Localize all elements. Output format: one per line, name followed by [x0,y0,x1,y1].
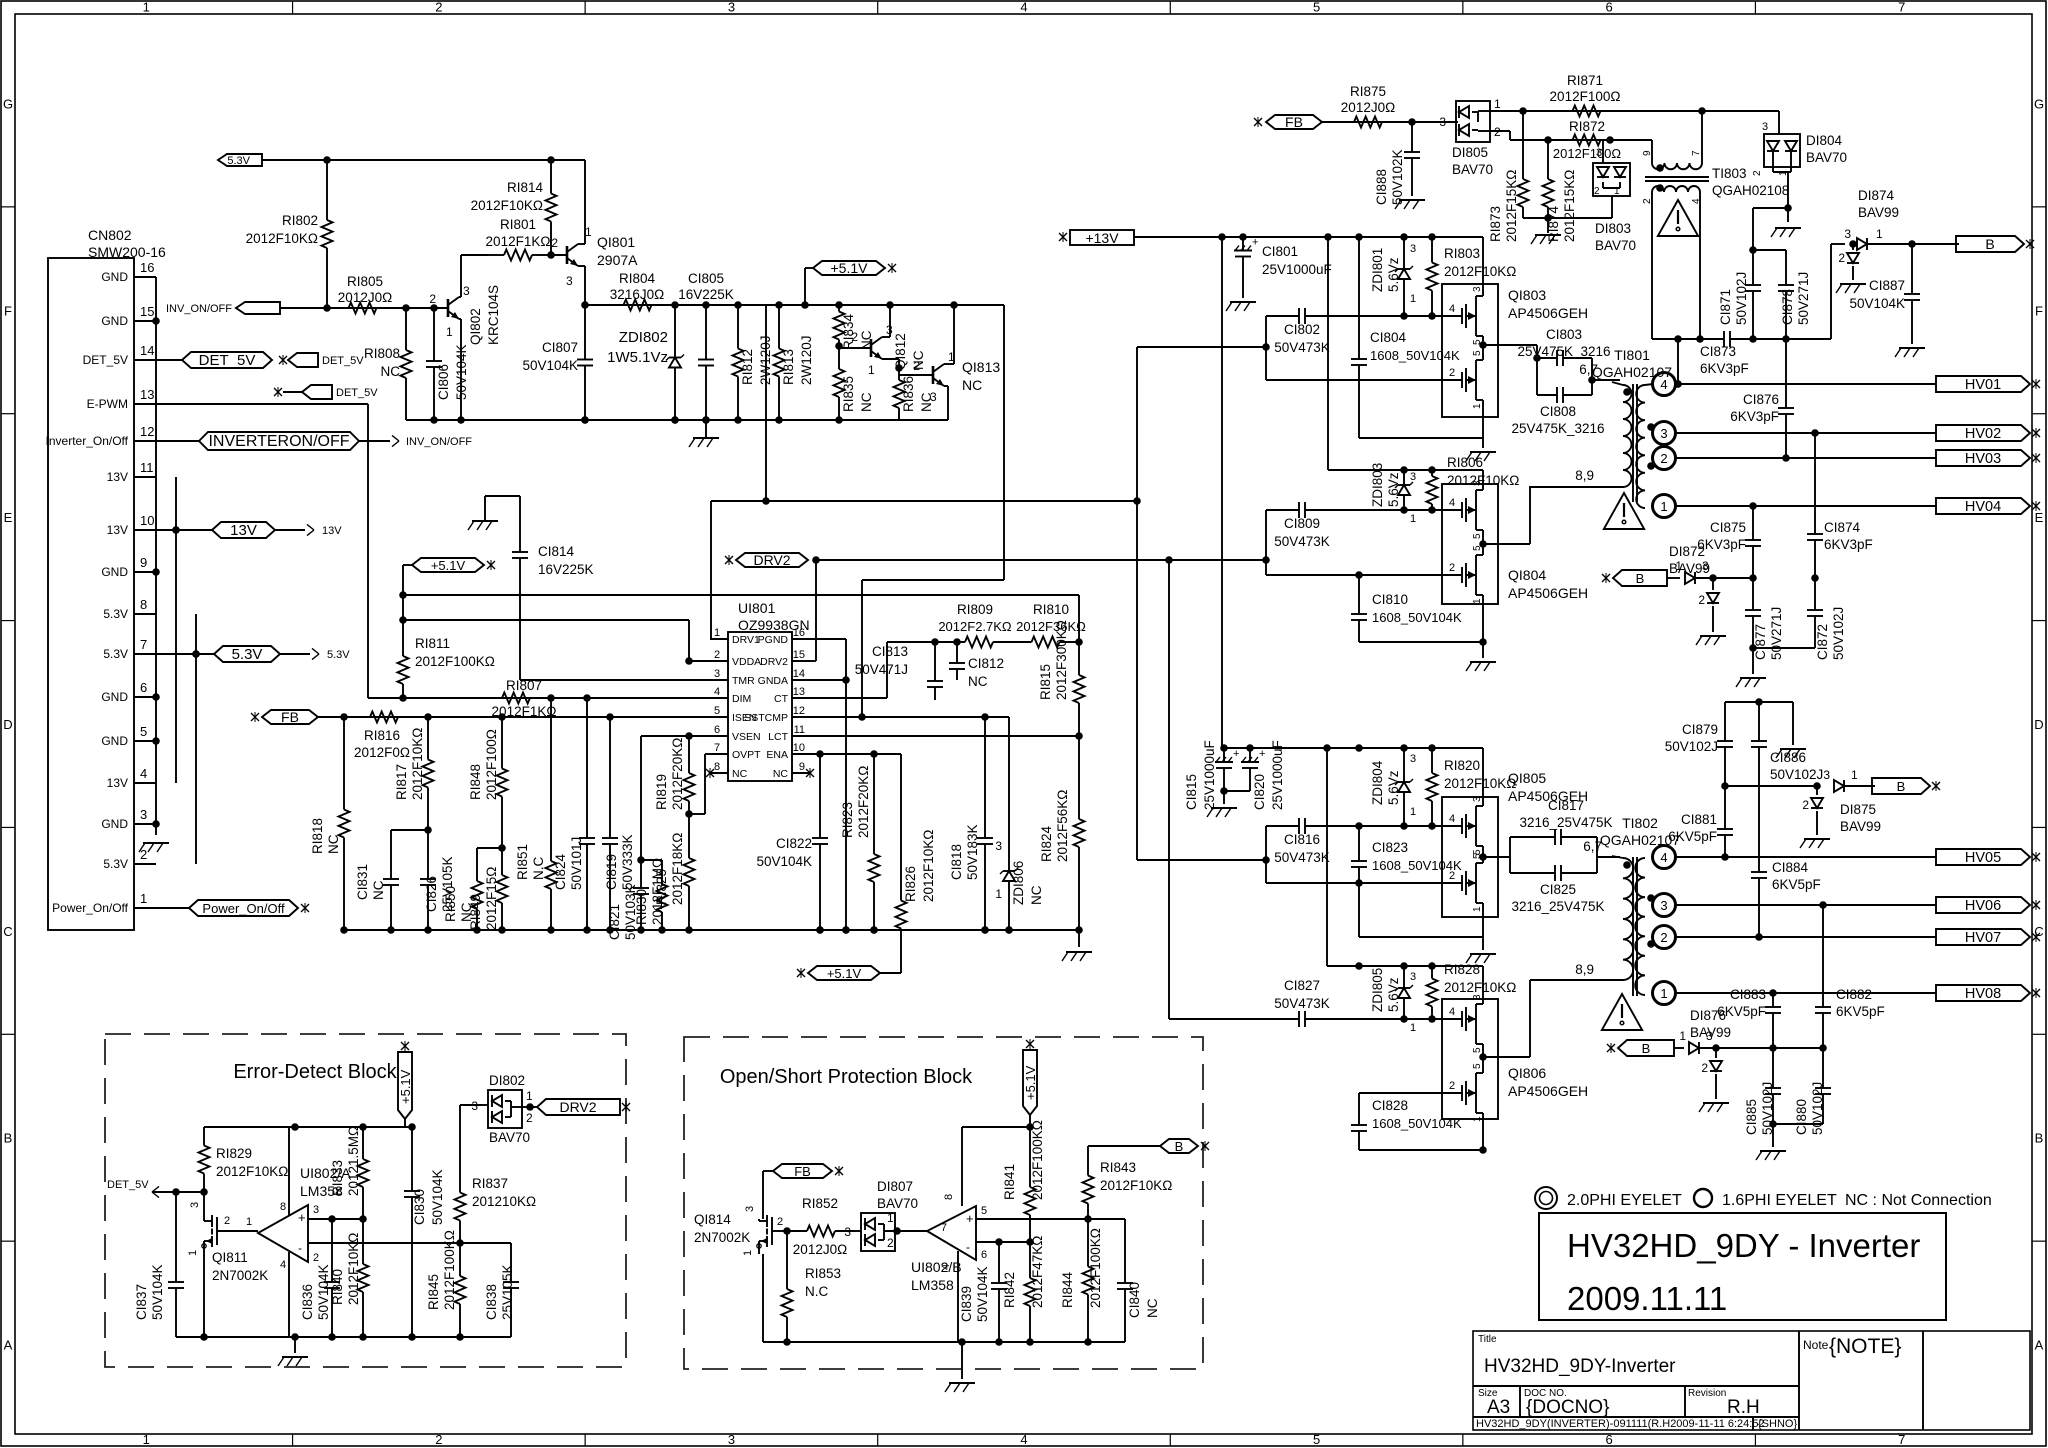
svg-text:E: E [4,510,13,525]
ground symbol below CI877 [1736,648,1766,687]
resistor RI802 [246,160,333,308]
wire +5.1V to RI809 node [399,591,1079,642]
zener diode ZDI806 (NC) [995,717,1044,934]
net flag HV07 [1936,929,2040,946]
svg-text:4: 4 [714,686,720,698]
svg-text:2012J0Ω: 2012J0Ω [1341,100,1395,115]
wire DI804 pins join [1773,160,1792,222]
net flag FB [251,709,318,725]
svg-text:RI811: RI811 [415,636,450,651]
svg-text:DRV2: DRV2 [760,656,788,668]
diode DI875 second half [1802,782,1823,835]
ground symbol error block [278,1337,308,1366]
svg-text:Error-Detect Block: Error-Detect Block [233,1061,397,1083]
wire RI817-CI826-CI831 node [391,826,432,834]
svg-text:RI871: RI871 [1567,73,1603,88]
svg-text:QI801: QI801 [597,234,635,250]
net flag DET_5V [156,352,272,369]
wire QI804 pin5 to TI801 8-9 [1483,468,1594,544]
svg-text:2012F2.7KΩ: 2012F2.7KΩ [938,619,1012,634]
svg-text:2012F10KΩ: 2012F10KΩ [1444,264,1516,279]
svg-text:6KV3pF: 6KV3pF [1824,537,1873,552]
resistor RI836 (NC) [894,368,935,420]
svg-text:3: 3 [1410,753,1416,765]
svg-text:25V1000uF: 25V1000uF [1270,740,1285,810]
svg-text:CI807: CI807 [542,340,578,355]
ground symbol below CI815 [1207,791,1237,817]
svg-text:2: 2 [551,236,558,250]
svg-text:RI805: RI805 [347,274,383,289]
svg-text:6: 6 [1606,0,1613,15]
resistor RI834 (NC) [834,305,875,350]
capacitor CI836 [300,1219,340,1341]
svg-text:2: 2 [714,649,720,661]
svg-text:CI885: CI885 [1744,1099,1759,1135]
svg-text:2: 2 [1642,198,1653,204]
svg-text:HV08: HV08 [1965,986,2001,1002]
svg-text:4: 4 [280,1259,286,1271]
svg-text:{DOCNO}: {DOCNO} [1526,1397,1609,1418]
svg-text:F: F [4,303,12,318]
svg-text:7: 7 [1898,0,1905,15]
ground symbol below DI872 [1696,636,1726,645]
eyelet pin 4 TI802 [1653,846,1676,869]
svg-text:CI804: CI804 [1370,330,1407,345]
svg-text:3: 3 [844,1225,851,1239]
svg-text:CI883: CI883 [1730,987,1766,1002]
svg-text:50V473K: 50V473K [1274,996,1330,1011]
svg-text:NC: NC [381,364,401,379]
svg-text:15: 15 [140,304,154,319]
svg-text:CI836: CI836 [300,1284,315,1320]
dual diode DI807 BAV70 [844,1179,918,1251]
connector CN802 pin 2 5.3V [103,847,156,871]
svg-text:CI877: CI877 [1753,624,1768,660]
svg-text:13V: 13V [107,470,128,484]
capacitor CI839 [959,1238,1007,1346]
svg-text:1: 1 [1679,1029,1686,1043]
net flag 13V [156,522,275,539]
svg-text:2: 2 [313,1252,319,1264]
svg-text:BAV99: BAV99 [1858,205,1899,220]
capacitor CI813 [855,638,943,700]
zener diode ZDI805 [1370,966,1416,1034]
svg-text:CI814: CI814 [538,544,575,559]
svg-text:RI815: RI815 [1038,664,1053,700]
svg-text:2012F20KΩ: 2012F20KΩ [670,738,685,810]
svg-text:2012F1KΩ: 2012F1KΩ [486,234,551,249]
wire QI804 source bottom [1359,638,1487,646]
svg-text:B: B [1642,1041,1651,1056]
svg-text:2012F10KΩ: 2012F10KΩ [1444,980,1516,995]
capacitor CI871 [1718,250,1761,343]
capacitor CI816 gate link lower [1262,826,1270,883]
svg-text:CI815: CI815 [1184,774,1199,810]
wire DRV2 net [810,556,1266,661]
net flag Power_On/Off [134,900,309,916]
svg-text:2012J0Ω: 2012J0Ω [793,1242,847,1257]
svg-text:NC: NC [962,377,982,393]
svg-text:11: 11 [140,460,154,475]
svg-text:1608_50V104K: 1608_50V104K [1372,610,1462,625]
svg-text:2009.11.11: 2009.11.11 [1567,1280,1727,1317]
wire error block top rail [204,1123,416,1131]
transformer TI801 QGAH02107 [1530,382,1655,508]
svg-text:Title: Title [1478,1334,1497,1345]
wire to TI802 primary [1583,839,1620,857]
wire RI830 link [641,859,662,861]
svg-text:3: 3 [728,0,735,15]
svg-text:RI814: RI814 [507,180,544,195]
svg-text:QI814: QI814 [694,1212,731,1227]
connector CN802 pin 11 13V [107,460,156,484]
svg-text:2: 2 [1449,562,1455,574]
wire HV04 line [1675,502,1936,510]
svg-text:QI812: QI812 [893,333,908,370]
svg-text:RI808: RI808 [364,346,400,361]
net flag HV01 [1936,376,2040,393]
svg-text:RI807: RI807 [506,678,542,693]
svg-text:CI838: CI838 [484,1284,499,1320]
svg-text:CI802: CI802 [1284,322,1320,337]
svg-text:4: 4 [940,1264,952,1270]
resistor RI830 [634,858,668,934]
svg-text:50V473K: 50V473K [1274,340,1330,355]
wire QI813 collector up [944,305,954,364]
svg-text:BAV99: BAV99 [1690,1025,1731,1040]
net label INV_ON/OFF left [166,302,280,315]
svg-text:UI801: UI801 [738,600,776,616]
svg-text:{NOTE}: {NOTE} [1829,1335,1901,1358]
svg-text:D: D [3,717,12,732]
eyelet pin 2 TI802 [1653,926,1676,949]
svg-text:C: C [3,924,12,939]
wire cell4 top rail [1327,962,1483,970]
svg-text:NC: NC [326,834,341,854]
connector CN802 pin 14 DET_5V [83,343,156,367]
svg-text:50V104K: 50V104K [756,854,812,869]
svg-text:CI805: CI805 [688,271,724,286]
transistor QI813 (NC) [899,350,1000,404]
svg-text:BAV70: BAV70 [1595,238,1636,253]
svg-text:4: 4 [140,766,147,781]
svg-text:1: 1 [742,1250,754,1256]
svg-text:CI824: CI824 [553,853,568,890]
svg-text:RI836: RI836 [901,376,916,412]
dual diode DI805 BAV70 [1439,97,1501,177]
svg-text:HV03: HV03 [1965,451,2001,467]
svg-text:2012F20KΩ: 2012F20KΩ [856,766,871,838]
svg-text:6: 6 [140,680,147,695]
dual MOSFET QI803 AP4506GEH [1442,237,1588,438]
svg-text:2012F100KΩ: 2012F100KΩ [1088,1228,1103,1308]
net flag HV05 [1936,849,2040,866]
svg-text:N.C: N.C [805,1284,829,1299]
svg-text:50V104K: 50V104K [1849,296,1905,311]
wire plus input net [328,1215,367,1223]
svg-text:1: 1 [995,887,1002,901]
title block texts row2 [1478,1388,1760,1418]
svg-text:TI803: TI803 [1712,166,1747,181]
svg-text:CI819: CI819 [604,854,619,890]
wire QI803 source bottom [1359,437,1483,439]
wire DI803 pin3 up [1602,140,1604,158]
capacitor CI884 [1751,860,1821,937]
svg-text:RI820: RI820 [1444,758,1480,773]
svg-text:1: 1 [1410,293,1416,305]
net label INV_ON/OFF arrow [359,435,472,448]
svg-text:+: + [1233,748,1239,760]
warning triangle TI802 [1602,994,1642,1030]
ground symbol below QI805 [1466,937,1496,963]
svg-text:PGND: PGND [758,634,789,646]
ground symbol protection block [945,1342,975,1392]
svg-text:2907A: 2907A [597,252,638,268]
wire ENA net [810,750,901,758]
svg-text:8: 8 [280,1201,286,1213]
svg-text:3: 3 [471,1099,478,1113]
svg-text:NC: NC [1029,885,1044,905]
svg-text:RI835: RI835 [841,376,856,412]
ground symbol below DI876 [1699,1103,1729,1112]
connector CN802 pin 6 GND [101,680,156,704]
title date 2009.11.11 [1567,1280,1727,1317]
svg-text:50V271J: 50V271J [1769,607,1784,660]
svg-text:QI804: QI804 [1508,567,1546,583]
svg-text:RI833: RI833 [330,1160,345,1196]
svg-text:2: 2 [777,1216,783,1228]
svg-text:CI801: CI801 [1262,244,1298,259]
svg-text:1: 1 [1614,186,1620,197]
capacitor CI879 [1665,702,1733,786]
svg-text:CI821: CI821 [607,904,622,940]
svg-text:E-PWM: E-PWM [87,397,128,411]
capacitor CI809 [1266,502,1443,549]
svg-text:1: 1 [526,1089,533,1103]
capacitor CI827 [1169,978,1443,1027]
svg-text:11: 11 [794,724,805,736]
net flag HV02 [1936,425,2040,442]
svg-text:5: 5 [1472,350,1483,356]
wire DI802 to DRV2 flag [524,1103,537,1111]
zener diode ZDI801 [1370,237,1416,316]
svg-text:+5.1V: +5.1V [831,260,869,276]
svg-text:Power_On/Off: Power_On/Off [52,901,128,915]
ground symbol below CI887 [1895,348,1925,357]
wire protection bottom rail [763,1338,1125,1346]
svg-text:AP4506GEH: AP4506GEH [1508,305,1588,321]
net flag B bottom [1607,1040,1674,1056]
wire QI813 link to DRV1 [765,305,767,501]
svg-text:CI808: CI808 [1540,404,1576,419]
wire 5.3V rail [262,156,585,164]
svg-text:2012F100Ω: 2012F100Ω [484,729,499,800]
svg-text:RI845: RI845 [426,1274,441,1310]
capacitor CI807 [522,305,593,424]
wire node line y305 [585,301,1004,309]
svg-text:9: 9 [1642,150,1653,156]
svg-text:2: 2 [1838,251,1845,265]
svg-text:LCT: LCT [768,731,788,743]
svg-text:13V: 13V [107,523,128,537]
svg-text:8: 8 [140,597,147,612]
svg-text:DRV2: DRV2 [559,1099,596,1115]
svg-text:12: 12 [140,424,154,439]
svg-text:CI812: CI812 [968,656,1004,671]
svg-text:2012F10KΩ: 2012F10KΩ [471,198,543,213]
resistor RI803 [1427,237,1517,316]
svg-text:ZDI805: ZDI805 [1370,968,1385,1012]
connector CN802 label [88,227,166,260]
svg-text:ZDI803: ZDI803 [1370,463,1385,507]
svg-text:NC : Not Connection: NC : Not Connection [1845,1192,1992,1209]
svg-text:1.6PHI EYELET: 1.6PHI EYELET [1722,1192,1837,1209]
wire LCT net [810,735,1079,737]
svg-text:50V102J: 50V102J [1810,1082,1825,1135]
wire FB line [1322,118,1458,126]
svg-text:-: - [298,1241,302,1255]
svg-text:OZ9938GN: OZ9938GN [738,617,810,633]
svg-text:2: 2 [851,330,858,344]
wire QI804 pin2 line [1266,571,1443,579]
svg-text:RI806: RI806 [1447,455,1483,470]
capacitor CI814 [512,496,594,680]
svg-text:ZDI802: ZDI802 [619,329,668,346]
svg-text:3216_25V475K: 3216_25V475K [1519,815,1612,830]
svg-text:5: 5 [1313,1432,1320,1447]
svg-text:2012F10KΩ: 2012F10KΩ [1100,1178,1172,1193]
svg-text:RI849: RI849 [468,894,483,930]
svg-text:3: 3 [1844,227,1851,241]
svg-text:HV02: HV02 [1965,426,2001,442]
svg-text:3: 3 [566,274,573,288]
capacitor CI873 [1677,331,1831,376]
resistor RI840 [330,1219,369,1341]
capacitor CI830 [404,1127,445,1341]
wire QI806 source bottom [1359,1146,1487,1154]
svg-text:INV_ON/OFF: INV_ON/OFF [406,436,472,448]
svg-text:RI830: RI830 [634,889,649,925]
svg-text:50V473K: 50V473K [1274,850,1330,865]
connector CN802 pin 12 Inverter_On/Off [46,424,156,448]
diode DI875 BAV99 [1823,768,1881,834]
wire QI803 pin5 node to caps [1483,345,1541,395]
svg-text:TI802: TI802 [1622,815,1658,831]
svg-text:2012J0Ω: 2012J0Ω [338,290,392,305]
svg-text:2012F18KΩ: 2012F18KΩ [670,833,685,905]
capacitor CI874 [1807,433,1873,582]
svg-text:1W5.1Vz: 1W5.1Vz [607,349,668,366]
svg-text:RI843: RI843 [1100,1160,1136,1175]
svg-text:B: B [1897,779,1906,794]
svg-text:RI826: RI826 [903,866,918,902]
resistor RI817 [394,717,434,830]
svg-text:+: + [1252,237,1258,249]
svg-text:5.6Vz: 5.6Vz [1386,770,1401,805]
svg-text:B: B [1636,571,1645,586]
net flag +5.1V mid [403,558,495,642]
svg-text:QI813: QI813 [962,359,1000,375]
net flag HV04 [1936,498,2040,515]
wire HV06 line [1675,901,1936,909]
svg-text:RI852: RI852 [802,1196,838,1211]
wire E-PWM to DIM [134,404,506,698]
svg-text:RI812: RI812 [740,349,755,385]
svg-text:4: 4 [1449,1006,1455,1018]
resistor RI826 [896,754,937,967]
svg-text:3: 3 [1472,994,1483,1000]
warning triangle TI803 [1658,200,1698,236]
svg-text:CI884: CI884 [1772,860,1809,875]
resistor RI829 [199,1127,289,1192]
svg-text:+5.1V: +5.1V [827,966,862,981]
capacitor CI817 [1510,798,1613,845]
capacitor CI876 [1730,339,1794,458]
svg-text:QI805: QI805 [1508,770,1546,786]
svg-text:GND: GND [101,314,128,328]
svg-text:BAV99: BAV99 [1669,561,1710,576]
svg-text:13: 13 [140,387,154,402]
title block table [1473,1331,2030,1430]
wire DI805 pin2 line [1490,131,1652,144]
diode DI876 second half [1701,1048,1722,1099]
svg-text:CI818: CI818 [949,844,964,880]
wire CI877/CI872 bottom [1749,644,1815,652]
svg-text:50V473K: 50V473K [1274,534,1330,549]
svg-text:2N7002K: 2N7002K [694,1230,750,1245]
ground symbol above CI814 [468,496,520,530]
wire OVPT link [685,754,710,818]
svg-text:50V104K: 50V104K [316,1264,331,1320]
svg-text:3: 3 [1472,796,1483,802]
ground symbol below QI804 [1466,642,1496,671]
svg-text:CI874: CI874 [1824,520,1861,535]
svg-text:HV32HD_9DY - Inverter: HV32HD_9DY - Inverter [1567,1227,1920,1264]
svg-text:16V225K: 16V225K [678,287,734,302]
capacitor CI883 [1717,987,1781,1052]
capacitor CI881 [1668,786,1733,857]
capacitor CI809-region cap CI810 [1351,575,1462,642]
svg-text:4: 4 [1020,1432,1027,1447]
wire QI811 source down [203,1256,205,1337]
svg-text:HV07: HV07 [1965,930,2001,946]
wire UI801 ground rail [344,926,1079,934]
svg-text:2012F10KΩ: 2012F10KΩ [1444,776,1516,791]
svg-text:RI802: RI802 [282,213,318,228]
svg-text:CI881: CI881 [1681,812,1717,827]
svg-text:1: 1 [1410,806,1416,818]
svg-text:201210KΩ: 201210KΩ [472,1194,536,1209]
svg-text:DI807: DI807 [877,1179,913,1194]
svg-text:5: 5 [1472,1063,1483,1069]
svg-text:25V475K_3216: 25V475K_3216 [1511,421,1604,436]
resistor RI833 [330,1126,369,1219]
svg-text:KRC104S: KRC104S [486,285,501,345]
svg-text:1: 1 [585,225,592,239]
svg-text:NC: NC [732,768,748,780]
svg-text:2012F300KΩ: 2012F300KΩ [1054,620,1069,700]
svg-text:5.3V: 5.3V [103,647,128,661]
capacitor CI828 [1351,1093,1462,1150]
svg-text:2.0PHI EYELET: 2.0PHI EYELET [1567,1192,1682,1209]
ground symbol right of CI886 [1776,749,1806,758]
ground symbol below CI801 [1226,302,1256,311]
svg-text:4: 4 [1691,198,1702,204]
svg-text:RI828: RI828 [1444,962,1480,977]
wire CI885/CI880 bottom [1769,1120,1823,1128]
svg-text:FB: FB [794,1164,811,1179]
svg-text:RI816: RI816 [364,728,400,743]
